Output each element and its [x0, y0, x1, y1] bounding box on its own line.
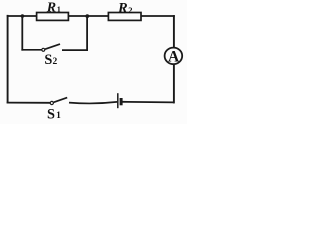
resistor R1 [37, 13, 69, 21]
wire: bottom right segment (battery to corner) [122, 101, 174, 104]
node left junction [21, 14, 25, 18]
svg-text:A: A [168, 48, 180, 65]
ammeter A1 [165, 48, 183, 66]
wire: S2 branch left vertical [21, 16, 23, 51]
wire: right vertical lower [173, 64, 175, 103]
wire: right vertical upper [173, 15, 175, 48]
svg-text:S: S [44, 52, 52, 68]
svg-text:2: 2 [53, 57, 58, 67]
wire: bottom middle segment (S1 to battery) [69, 102, 117, 104]
wire: top horizontal [7, 15, 175, 17]
node right junction [85, 14, 89, 18]
wire: S2 branch right horizontal [62, 49, 88, 51]
svg-text:1: 1 [56, 111, 61, 121]
battery cell: long thin plate [117, 93, 119, 108]
wire: S2 branch right vertical [86, 16, 88, 51]
svg-text:R: R [46, 1, 56, 16]
resistor R2 [108, 13, 141, 21]
switch S1 [50, 98, 67, 105]
battery cell: short thick plate [120, 98, 123, 105]
svg-text:S: S [47, 107, 55, 123]
svg-text:R: R [117, 0, 128, 16]
wire: S2 branch left horizontal [21, 49, 41, 51]
svg-text:2: 2 [128, 5, 132, 15]
switch S2 [42, 44, 60, 51]
svg-text:1: 1 [57, 5, 61, 14]
wire: bottom left segment [7, 102, 50, 104]
wire: left vertical [7, 15, 9, 104]
